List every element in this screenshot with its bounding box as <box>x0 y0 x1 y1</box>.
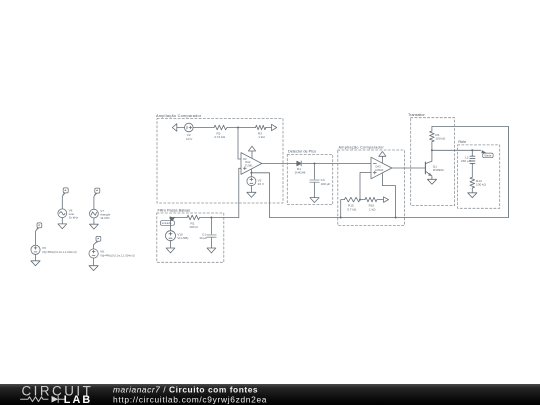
svg-text:Ampliação Comparador: Ampliação Comparador <box>339 145 385 149</box>
svg-text:V(t)=PWL(0,0.1m,1,1.014m,0): V(t)=PWL(0,0.1m,1,1.014m,0) <box>42 250 77 254</box>
wire flag to V5 <box>36 228 39 245</box>
node flag (right of R3) <box>272 124 277 130</box>
ground (V10) <box>166 248 175 253</box>
wire junction down to op-amp inverting input <box>238 128 241 160</box>
svg-text:marianacr7 / Circuito com font: marianacr7 / Circuito com fontes <box>113 384 258 394</box>
resistor R2 (2.74 kOhm) <box>214 125 227 130</box>
wire feedback junction right and down to rail <box>251 173 269 218</box>
wire R1 to op-amp1 + input riser <box>200 217 239 219</box>
wire op-amp2 output to transistor base <box>392 167 426 169</box>
resistor R14 (100 kOhm) vertical <box>470 177 475 188</box>
logo diode triangle <box>52 396 59 403</box>
node junction (R6/collector/rele) <box>431 149 433 151</box>
wire op-amp output to diode <box>262 163 297 165</box>
node junction (diode/C3) <box>314 163 316 165</box>
node flag (left of V2) <box>172 124 177 132</box>
wire op-amp2 V- pin to rail <box>382 173 395 217</box>
wire V3 to ground <box>250 186 252 193</box>
svg-text:2.74 kΩ: 2.74 kΩ <box>214 135 225 139</box>
wire flag to V2 <box>177 127 185 129</box>
svg-text:Rele: Rele <box>458 140 466 144</box>
ground (R14) <box>468 193 477 198</box>
block box Amp Comparador 1 <box>157 119 283 204</box>
node junction (R15/R16/+in) <box>359 199 361 201</box>
wire R6 top lead <box>431 127 433 132</box>
svg-text:10 V: 10 V <box>258 182 265 186</box>
node flag (right of R16) <box>384 197 389 203</box>
node junction (entrada/V10) <box>170 217 172 219</box>
op-amp OA2 V+ arrow <box>251 151 253 158</box>
op-amp OA3 V+ arrow <box>381 156 383 162</box>
wire junction to R16 <box>360 199 365 201</box>
svg-text:http://circuitlab.com/c9yrwj6z: http://circuitlab.com/c9yrwj6zdn2ea <box>113 394 267 404</box>
wire V8 to ground <box>93 258 95 266</box>
node flag A (above V6) <box>62 188 68 195</box>
source V10 <box>166 231 176 241</box>
resistor R15 (5.7 kOhm) <box>344 197 360 202</box>
capacitor C3 (100 uF) <box>310 180 319 182</box>
wire V5 to ground <box>35 254 37 260</box>
net flag "Saida" <box>481 150 486 153</box>
resistor R6 (100 kOhm) vertical <box>430 131 435 142</box>
svg-text:Saida: Saida <box>484 154 492 158</box>
ground (V6) <box>58 224 67 229</box>
svg-text:230 µH: 230 µH <box>461 159 471 163</box>
node flag D (above V8) <box>95 236 101 243</box>
svg-text:OA2: OA2 <box>245 160 251 164</box>
wire R14 to ground <box>471 188 473 193</box>
svg-text:LAB: LAB <box>64 394 93 405</box>
ground (C3) <box>310 198 319 203</box>
source V8 (PWL) <box>89 249 98 258</box>
svg-text:Detector de Pico: Detector de Pico <box>288 150 316 154</box>
resistor R3 (1 kOhm) <box>256 125 267 130</box>
block box Detector de Pico <box>287 155 332 205</box>
ground (C1) <box>207 248 216 253</box>
ground (Q1 emitter) <box>427 179 436 184</box>
svg-text:100 µF: 100 µF <box>321 182 331 186</box>
ground (V7) <box>90 224 99 229</box>
capacitor C1 (10 uF) <box>207 235 216 237</box>
svg-text:LM324: LM324 <box>375 168 384 172</box>
wire entrada node to R1 <box>171 217 188 219</box>
svg-text:100 Ω: 100 Ω <box>189 225 198 229</box>
block box Rele <box>458 145 500 208</box>
wire V2 to R2 <box>193 127 214 129</box>
block box Transistor <box>411 118 455 206</box>
inductor L2 (230 uH) <box>470 155 475 164</box>
wire R15 left leg <box>341 200 345 218</box>
svg-text:10 µF: 10 µF <box>199 236 207 240</box>
node junction (R1/C1) <box>210 217 212 219</box>
svg-text:1N4148: 1N4148 <box>295 171 306 175</box>
logo resistor-diode squiggle <box>21 396 65 403</box>
node junction (rail/op-amp2 V-) <box>395 217 397 219</box>
wire R6 bottom lead to collector junction <box>431 142 433 151</box>
svg-text:1 kΩ: 1 kΩ <box>369 207 376 211</box>
svg-text:2N3904: 2N3904 <box>433 168 444 172</box>
ground (V8) <box>89 266 98 271</box>
svg-text:1 kΩ: 1 kΩ <box>258 135 265 139</box>
svg-text:1k kHz: 1k kHz <box>100 216 110 220</box>
svg-text:TL081: TL081 <box>245 164 253 168</box>
wire R3 to right flag <box>266 127 272 129</box>
wire diode to op-amp 2 <box>302 163 371 165</box>
svg-text:100 kΩ: 100 kΩ <box>435 136 446 140</box>
wire R16 to right flag <box>377 199 384 201</box>
node junction (R2/R3/op-amp) <box>237 127 239 129</box>
svg-text:100 kΩ: 100 kΩ <box>476 183 487 187</box>
svg-text:10 V: 10 V <box>186 137 193 141</box>
ground (V5) <box>31 261 40 266</box>
svg-text:OA3: OA3 <box>375 165 381 169</box>
svg-text:5.7 kΩ: 5.7 kΩ <box>347 207 357 211</box>
svg-text:V(1-NB): V(1-NB) <box>177 236 188 240</box>
ground (V3) <box>247 192 256 197</box>
wire C1 to ground <box>210 237 212 248</box>
wire V7 to ground <box>93 218 95 224</box>
svg-text:Filtro Passa Baixas: Filtro Passa Baixas <box>158 208 191 212</box>
source V2 (10 V) <box>185 123 194 132</box>
block box Filtro Passa Baixas <box>157 213 224 262</box>
transistor Q1 (2N3904 NPN) <box>425 150 432 179</box>
wire R2 to R3 <box>227 127 256 129</box>
source V3 (10 V) <box>247 177 256 186</box>
wire op-amp2 + input to R15/R16 junction <box>360 173 371 200</box>
svg-text:Transistor: Transistor <box>408 113 425 117</box>
wire L2 to R14 <box>471 165 473 178</box>
resistor R16 (1 kOhm) <box>365 197 377 202</box>
source V7 (triangle 1k kHz) <box>90 209 99 218</box>
svg-text:Ampliação Comparador: Ampliação Comparador <box>156 114 202 118</box>
op-amp OA2 TL081 <box>241 153 262 175</box>
svg-text:V5: V5 <box>42 246 46 250</box>
wire flag to V7 <box>94 193 96 209</box>
wire V10 to ground <box>170 241 172 248</box>
wire junction down to L2 <box>471 150 473 155</box>
node flag B (above V7) <box>94 188 100 195</box>
wire op-amp + input down to filter <box>239 168 241 217</box>
wire junction down to C3 <box>314 164 316 180</box>
source V6 (sine 1k kHz) <box>58 209 67 218</box>
wire flag to V6 <box>62 193 64 209</box>
wire collector junction to rele <box>432 149 481 151</box>
node junction (rail/R15 leg) <box>340 217 342 219</box>
wire junction down to C1 <box>210 218 212 235</box>
wire V6 to ground <box>61 218 63 224</box>
block box Amp Comparador 2 <box>338 150 405 226</box>
node junction (V- / V3 / feedback) <box>250 172 252 174</box>
node flag C (above V5) <box>36 223 42 230</box>
svg-text:V8: V8 <box>100 250 104 254</box>
resistor R1 (100 Ohm) <box>187 215 200 220</box>
wire flag to V8 <box>94 242 98 249</box>
footer background <box>0 384 540 405</box>
wire op-amp V- pin to junction <box>250 169 252 176</box>
svg-text:1k kHz: 1k kHz <box>69 216 79 220</box>
source V5 (PWL) <box>31 245 40 254</box>
diode D1 (1N4148) <box>297 161 301 166</box>
net flag "entrada" <box>169 217 176 221</box>
node junction (collector wire / L2) <box>471 149 473 151</box>
wire node down to V10 <box>170 218 172 231</box>
wire C3 to ground <box>314 182 316 197</box>
op-amp OA3 LM324 <box>371 157 392 179</box>
wire bottom rail to R6 top <box>270 127 509 218</box>
svg-text:V(t)=PWL(0,0.1m,1,1.014m,0): V(t)=PWL(0,0.1m,1,1.014m,0) <box>100 253 135 257</box>
